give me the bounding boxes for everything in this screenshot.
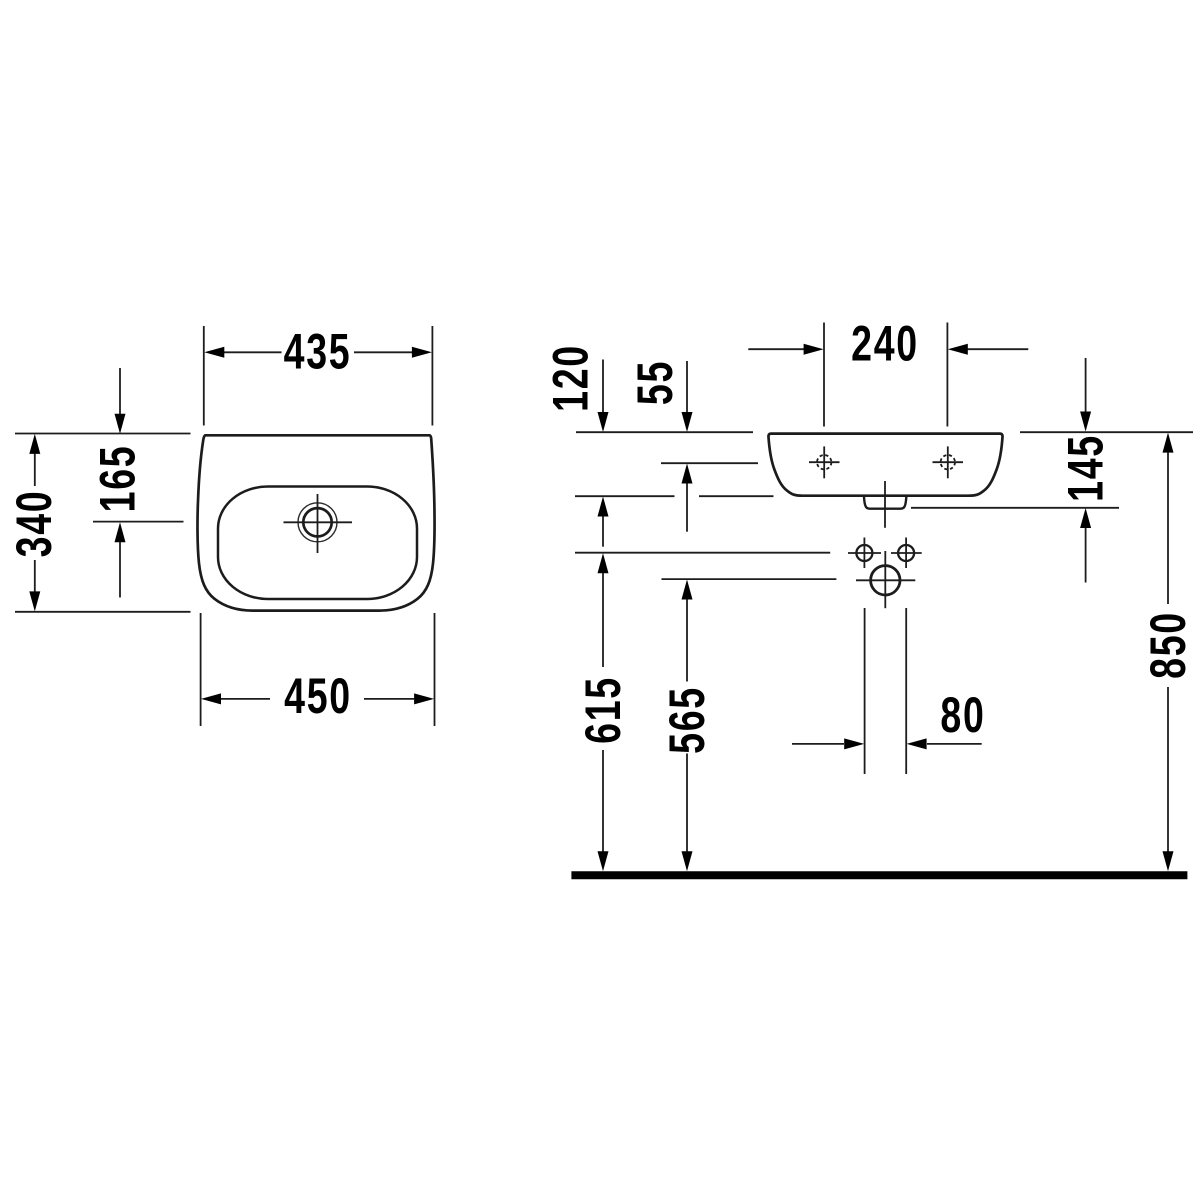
dim 850 lower shaft (1167, 687, 1169, 852)
fixing hole right crosshair h (933, 461, 964, 463)
dim 240 extension line left (823, 323, 825, 427)
dim 340 line lower segment (34, 560, 36, 592)
reference line outlet bottom (right) (911, 507, 1119, 509)
drain outlet box (864, 496, 907, 509)
basin front profile (768, 434, 1002, 496)
faucet hole inner circle (303, 508, 331, 536)
fixing hole left dashed circle (817, 455, 831, 469)
svg-text:340: 340 (7, 490, 62, 558)
supply circle right (898, 545, 914, 561)
supply circle right crosshair h (891, 552, 922, 554)
dim 120 lower arrow (up) (598, 497, 609, 517)
svg-text:165: 165 (90, 445, 145, 513)
dim 240 arrow right (points left) (948, 344, 968, 355)
drain centre line (884, 481, 886, 528)
supply circle left crosshair v (863, 538, 865, 569)
dim 55 lower arrow shaft (686, 483, 688, 531)
dim 145 lower arrow (up) (1080, 508, 1091, 528)
dim 435 arrow left (204, 347, 224, 358)
dim 565 lower arrow (down) (682, 851, 693, 871)
dim 145 upper arrow (down) (1080, 412, 1091, 432)
svg-text:240: 240 (851, 316, 919, 371)
dim 165 lower arrow shaft (119, 542, 121, 598)
reference line basin bottom seg1 (575, 495, 675, 497)
dim 615 upper shaft (602, 573, 604, 667)
svg-text:145: 145 (1058, 434, 1113, 502)
dim 850 upper arrow (up) (1163, 433, 1174, 453)
dim 450 arrow left (201, 693, 221, 704)
supply circle left crosshair h (848, 552, 881, 554)
dim 165 lower arrow (up) (115, 522, 126, 542)
reference line drain centre (662, 578, 837, 580)
top reference line left segment (576, 431, 753, 433)
dim 435 line left segment (224, 351, 282, 353)
dim 615 lower shaft (602, 750, 604, 852)
dim 565 upper arrow (up) (682, 580, 693, 600)
dim 165 upper arrow shaft (119, 368, 121, 414)
dim 80 arrow left (points right) (844, 738, 864, 749)
drain circle (871, 566, 900, 595)
dim 435 line right segment (354, 351, 412, 353)
dim 450 arrow right (414, 693, 434, 704)
dim 165 upper arrow (down) (115, 414, 126, 434)
dim 145 lower arrow shaft (1085, 528, 1087, 583)
svg-text:450: 450 (284, 669, 352, 724)
basin inner bowl (218, 487, 417, 600)
dim 340 arrow top (29, 434, 40, 454)
dim 120 upper arrow (down) (598, 412, 609, 432)
dim 850 upper shaft (1167, 452, 1169, 604)
svg-text:55: 55 (628, 360, 683, 405)
faucet crosshair vertical (317, 494, 319, 553)
dim 850 lower arrow (down) (1163, 851, 1174, 871)
reference line fixing holes (661, 462, 758, 464)
reference line basin bottom seg2 (699, 495, 774, 497)
fixing hole right dashed circle (941, 455, 955, 469)
dim 240 line left segment (748, 348, 804, 350)
dim 435 extension line left (203, 326, 205, 426)
dim 80 line right segment (927, 743, 982, 745)
supply circle left (856, 545, 872, 561)
dim 165 extension line (hole centre) (93, 521, 184, 523)
dim 450 extension line right (434, 613, 436, 726)
fixing hole right crosshair v (947, 446, 949, 478)
dim 240 arrow left (points right) (804, 344, 824, 355)
dim 240 extension line right (946, 323, 948, 427)
floor line (571, 871, 1187, 879)
dim 340 line upper segment (34, 454, 36, 486)
dim 80 arrow right (points left) (907, 738, 927, 749)
dim 435 extension line right (431, 326, 433, 426)
dim 450 extension line left (200, 613, 202, 726)
svg-text:565: 565 (660, 686, 715, 754)
dim 80 extension line right (905, 608, 907, 774)
dim 435 arrow right (412, 347, 432, 358)
svg-text:435: 435 (284, 324, 352, 379)
reference line supply centre (575, 552, 830, 554)
svg-text:850: 850 (1141, 611, 1196, 679)
faucet crosshair horizontal (284, 521, 353, 523)
drain circle crosshair h (856, 579, 915, 581)
dim 120 lower arrow shaft (602, 516, 604, 546)
dim 340 extension line top (15, 433, 191, 435)
dim 615 lower arrow (down) (598, 851, 609, 871)
top reference line right segment (1020, 431, 1193, 433)
dim 565 lower shaft (686, 754, 688, 852)
faucet hole outer circle (298, 503, 337, 542)
basin outer outline (197, 435, 434, 610)
dim 55 upper arrow (down) (682, 412, 693, 432)
dim 55 upper arrow shaft (686, 361, 688, 413)
svg-text:615: 615 (576, 676, 631, 744)
dim 120 upper arrow shaft (602, 360, 604, 413)
svg-text:120: 120 (543, 344, 598, 412)
drain circle crosshair v (884, 551, 886, 608)
dim 145 upper arrow shaft (1085, 358, 1087, 412)
dim 55 lower arrow (up) (682, 464, 693, 484)
dim 340 arrow bottom (29, 591, 40, 611)
dim 340 extension line bottom (15, 611, 191, 613)
dim 240 line right segment (967, 348, 1028, 350)
fixing hole left crosshair h (809, 461, 840, 463)
fixing hole left crosshair v (823, 446, 825, 478)
dim 80 line left segment (792, 743, 844, 745)
dim 565 upper shaft (686, 599, 688, 681)
dim 450 line left segment (221, 698, 270, 700)
dim 80 extension line left (864, 608, 866, 774)
dim 615 upper arrow (up) (598, 553, 609, 573)
supply circle right crosshair v (905, 538, 907, 569)
dim 450 line right segment (364, 698, 414, 700)
svg-text:80: 80 (940, 688, 985, 743)
